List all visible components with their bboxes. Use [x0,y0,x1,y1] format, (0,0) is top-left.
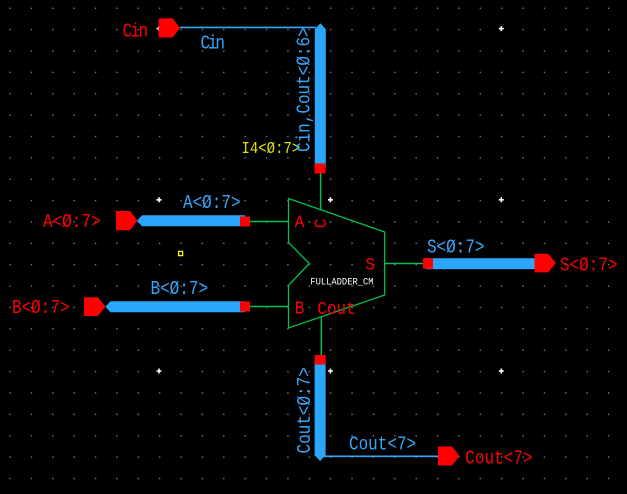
svg-text:Cin: Cin [201,33,226,55]
bus B<0:7> (horizontal wide wire) [105,301,245,312]
svg-text:B<Ø:7>: B<Ø:7> [12,298,70,320]
pin B<0:7> (red input pin) [84,297,105,316]
svg-text:S<Ø:7>: S<Ø:7> [427,237,485,259]
junction square S (red) [423,258,433,269]
svg-text:Cout<Ø:7>: Cout<Ø:7> [295,367,317,453]
wire net Cout<7> (thin blue) [320,455,438,457]
svg-text:A: A [295,214,305,234]
junction square B (red) [240,302,250,312]
svg-text:FULLADDER_CM: FULLADDER_CM [310,276,373,288]
svg-text:Cout<7>: Cout<7> [465,448,532,470]
svg-text:B: B [295,300,305,320]
pin A<0:7> (red input pin) [116,211,137,230]
pin Cout<7> (red output pin) [438,447,460,466]
svg-text:C: C [312,219,332,229]
pin Cin (red input pin, top left) [159,18,181,37]
pin stub wire Cout bottom (symbol pin) [320,317,322,356]
svg-text:A<Ø:7>: A<Ø:7> [183,193,241,215]
pin S<0:7> (red output pin) [535,254,556,273]
svg-text:S<Ø:7>: S<Ø:7> [560,255,618,277]
instance I4 FULLADDER_CM symbol outline [289,199,385,329]
junction square A (red) [240,217,250,227]
wire net Cin (thin blue) [180,26,316,28]
svg-text:Cin,Cout<Ø:6>: Cin,Cout<Ø:6> [294,27,316,152]
junction square bottom (red) [315,355,326,365]
bus A<0:7> (horizontal wide wire) [137,215,245,226]
junction square top (red) [315,164,326,174]
svg-text:Cout<7>: Cout<7> [349,434,416,456]
bus S<0:7> (horizontal wide wire) [426,258,537,269]
pin stub wire C top (symbol pin) [320,172,322,211]
bus Cout<0:7> (vertical wide wire) [315,358,326,461]
origin marker (yellow square) [179,251,183,255]
svg-text:Cout: Cout [317,300,355,320]
pin stub wire A (symbol pin) [249,221,289,223]
svg-text:Cin: Cin [123,21,149,43]
svg-text:I4<Ø:7>: I4<Ø:7> [242,139,301,159]
svg-text:B<Ø:7>: B<Ø:7> [151,279,209,301]
svg-text:A<Ø:7>: A<Ø:7> [43,212,101,234]
grid major crosses [157,26,504,373]
svg-text:S: S [366,256,376,276]
pin stub wire B (symbol pin) [249,306,289,308]
bus Cin,Cout<0:6> (vertical wide wire) [315,23,326,168]
pin stub wire S (symbol pin) [385,263,425,265]
